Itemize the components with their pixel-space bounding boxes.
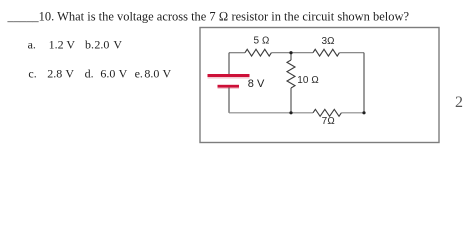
wire: left vertical down to battery	[228, 53, 230, 74]
wire: bottom-right horizontal	[341, 112, 364, 114]
svg-text:V: V	[119, 67, 128, 81]
svg-text:c.: c.	[28, 67, 36, 81]
svg-text:e.: e.	[135, 67, 143, 81]
wire: bottom-left horizontal	[229, 112, 313, 114]
svg-text:V: V	[113, 38, 122, 52]
resistor R 5 ohm zigzag	[245, 49, 271, 56]
wire: top-left horizontal to 5-ohm resistor	[229, 52, 245, 54]
svg-text:V: V	[66, 38, 75, 52]
svg-text:2.8: 2.8	[47, 67, 62, 81]
svg-text:8 V: 8 V	[248, 78, 265, 90]
svg-text:a.: a.	[28, 38, 36, 52]
wire: top-right to corner	[339, 52, 364, 54]
svg-text:1.2: 1.2	[49, 38, 64, 52]
wire: top middle between 5-ohm and 3-ohm	[271, 52, 313, 54]
wire: battery bottom vertical	[228, 88, 230, 113]
resistor R 7 ohm zigzag	[313, 109, 341, 116]
resistor R 10 ohm vertical zigzag	[287, 60, 295, 88]
svg-text:V: V	[65, 67, 74, 81]
svg-text:7Ω: 7Ω	[322, 116, 335, 127]
battery 8V positive plate (long red bar)	[208, 74, 250, 77]
svg-text:_____10. What is the voltage a: _____10. What is the voltage across the …	[7, 8, 410, 23]
svg-text:2: 2	[455, 94, 463, 111]
circuit figure border box	[200, 28, 439, 143]
wire: right vertical	[363, 53, 365, 113]
svg-text:b.: b.	[85, 38, 94, 52]
wire: 10-ohm bottom connector	[290, 88, 292, 113]
junction node bottom middle	[289, 111, 292, 114]
junction node bottom right	[362, 111, 365, 114]
resistor R 3 ohm zigzag	[313, 49, 339, 56]
svg-text:6.0: 6.0	[100, 67, 115, 81]
wire: 10-ohm top connector	[290, 53, 292, 60]
svg-text:10 Ω: 10 Ω	[297, 75, 319, 86]
battery 8V negative plate (short red bar)	[218, 85, 240, 88]
svg-text:d.: d.	[85, 67, 94, 81]
junction node top middle	[289, 51, 292, 54]
svg-text:8.0: 8.0	[144, 67, 159, 81]
svg-text:5 Ω: 5 Ω	[253, 36, 269, 47]
svg-text:3Ω: 3Ω	[321, 36, 334, 47]
svg-text:V: V	[163, 67, 172, 81]
svg-text:2.0: 2.0	[94, 38, 109, 52]
